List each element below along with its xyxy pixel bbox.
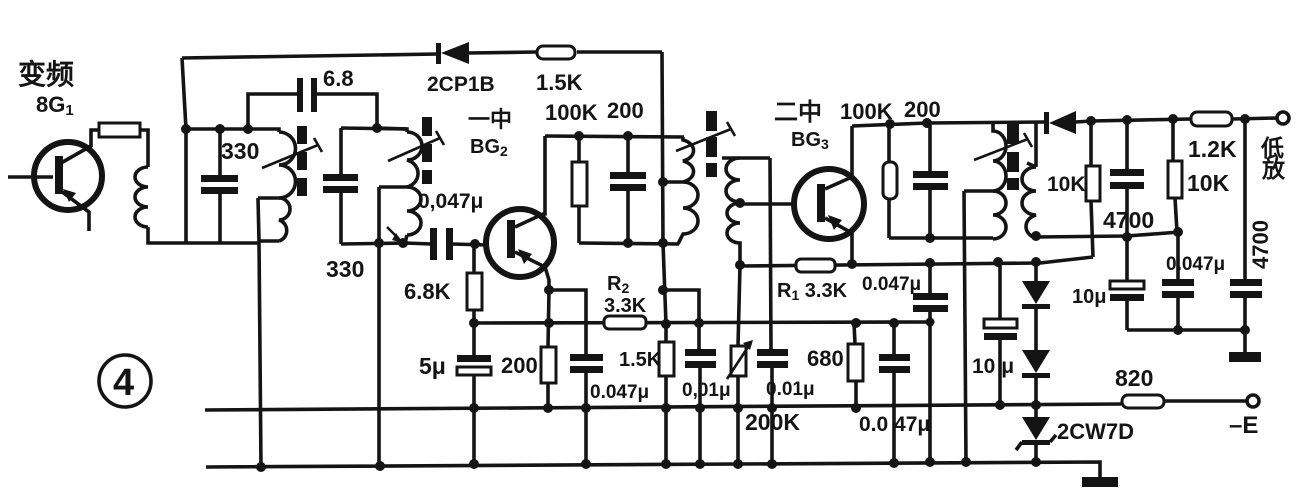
svg-text:3.3K: 3.3K	[604, 295, 647, 317]
inductor L1 (BG1 load coil)	[135, 167, 148, 227]
figure number 4	[99, 355, 151, 407]
arrow small (into node)	[387, 227, 403, 243]
svg-text:–E: –E	[1229, 412, 1258, 439]
transistor BG2	[486, 136, 554, 290]
svg-text:6.8K: 6.8K	[404, 279, 451, 304]
capacitor 10u (first)	[984, 262, 1017, 405]
svg-text:100K: 100K	[545, 100, 598, 125]
ground (output filter)	[1229, 330, 1261, 362]
resistor 1.2K	[1191, 112, 1232, 126]
svg-text:1.2K: 1.2K	[1188, 136, 1237, 162]
svg-text:10K: 10K	[1047, 173, 1086, 196]
arrow T2 tuning	[676, 122, 735, 151]
resistor 1.5K (emitter)	[659, 342, 674, 376]
inductor T2 secondary	[722, 158, 770, 265]
wire BG2 emitter node	[544, 285, 554, 295]
capacitor 0.01u (second)	[757, 349, 788, 464]
wire	[140, 130, 148, 167]
resistor 1.5K (top)	[537, 46, 575, 59]
svg-text:0.047μ: 0.047μ	[862, 274, 921, 295]
wire (left vertical from top rail)	[182, 58, 186, 243]
wire	[1164, 399, 1246, 403]
capacitor 0.01u (first)	[663, 290, 716, 464]
diode D1	[1022, 262, 1050, 350]
capacitor 0.047u coupling to BG2	[405, 228, 488, 260]
svg-text:0.047μ: 0.047μ	[590, 382, 649, 403]
arrow T1 tuning	[262, 138, 322, 168]
capacitor 330 (second tank)	[323, 128, 358, 244]
svg-text:330: 330	[221, 138, 259, 164]
diode 2CW7D (zener)	[1016, 417, 1056, 463]
resistor 10K (left)	[1086, 121, 1100, 257]
diode 2CP1B	[436, 42, 536, 64]
capacitor 200 (second)	[913, 125, 948, 238]
resistor (BG1 collector, unlabeled)	[99, 123, 140, 137]
svg-text:放: 放	[1261, 156, 1286, 182]
wire bottom right	[1127, 328, 1245, 332]
node tank2 top	[372, 123, 382, 133]
wire	[1232, 118, 1277, 119]
core T1	[297, 126, 307, 196]
wire (long vertical B+ line)	[662, 52, 666, 464]
wire BG2 collector rail	[545, 136, 684, 137]
capacitor 5u	[457, 323, 491, 464]
transistor BG1	[8, 130, 102, 231]
wire (T1 return, down to rails)	[258, 198, 261, 467]
svg-text:100K: 100K	[840, 99, 893, 124]
transistor BG3	[794, 126, 864, 264]
svg-text:820: 820	[1115, 365, 1153, 391]
wire	[889, 236, 993, 240]
wire	[186, 241, 259, 245]
wire	[577, 50, 662, 54]
svg-text:10 μ: 10 μ	[972, 355, 1014, 378]
capacitor 0.047u (BG2 emitter)	[549, 290, 603, 464]
svg-text:6.8: 6.8	[323, 66, 354, 91]
wire (T2 secondary top to 0.01u column)	[770, 158, 771, 350]
capacitor 4700 (left)	[1110, 120, 1144, 237]
wire AGC rail (emitter row)	[740, 257, 1093, 266]
svg-text:0.0 47μ: 0.0 47μ	[859, 413, 930, 436]
svg-text:330: 330	[326, 256, 364, 282]
capacitor 6.8	[248, 78, 377, 129]
terminal 低放	[1277, 112, 1289, 124]
svg-text:0.01μ: 0.01μ	[766, 379, 815, 400]
wire BG3 collector rail	[852, 122, 1046, 126]
svg-text:0,047μ: 0,047μ	[418, 190, 483, 213]
node tank2 bottom	[374, 238, 384, 248]
wire	[341, 243, 407, 244]
wire	[148, 227, 186, 243]
svg-text:10μ: 10μ	[1072, 286, 1106, 308]
resistor 820	[1122, 395, 1164, 408]
wire	[341, 128, 406, 129]
resistor 680	[848, 323, 863, 407]
inductor tank2	[377, 128, 422, 243]
svg-text:4700: 4700	[1248, 220, 1273, 269]
svg-text:R1 3.3K: R1 3.3K	[777, 280, 848, 303]
core T3	[1007, 121, 1019, 190]
svg-text:4: 4	[113, 362, 134, 404]
wire mid rail right	[1036, 232, 1180, 237]
svg-text:10K: 10K	[1187, 170, 1230, 196]
svg-text:680: 680	[807, 346, 844, 371]
wire bias rail	[474, 322, 930, 323]
capacitor 0.047u (output)	[1162, 232, 1194, 330]
resistor R2 3.3K	[604, 316, 646, 329]
inductor T3 secondary	[1022, 123, 1036, 238]
svg-text:5μ: 5μ	[419, 353, 446, 379]
core T2	[706, 111, 717, 177]
svg-text:200: 200	[904, 97, 941, 122]
diode D2	[1022, 350, 1050, 417]
resistor 10K (right)	[1168, 119, 1182, 232]
svg-text:1.5K: 1.5K	[536, 70, 583, 95]
resistor 6.8K	[467, 244, 482, 323]
ground (main)	[1082, 477, 1118, 487]
node BG2 base	[470, 239, 480, 249]
svg-text:一中: 一中	[468, 107, 512, 132]
capacitor 200 (first)	[610, 136, 646, 243]
wire (tank2 return, down to rails)	[377, 187, 381, 466]
wire top rail	[182, 54, 438, 58]
inductor T2 primary	[663, 137, 698, 244]
svg-text:二中: 二中	[774, 99, 822, 126]
potentiometer 200K	[727, 265, 753, 464]
inductor T1 primary	[248, 129, 296, 241]
resistor 200 (emitter)	[541, 290, 556, 408]
capacitor 10u (second)	[1110, 236, 1144, 330]
inductor T3 primary	[964, 123, 1006, 239]
resistor 100K (first)	[572, 136, 587, 243]
svg-text:200: 200	[501, 353, 538, 378]
wire (T3 return down to rails)	[964, 191, 966, 462]
wire BG3 base	[740, 202, 795, 206]
wire ground rail upper	[205, 404, 1121, 410]
terminal -E	[1247, 395, 1259, 407]
wire ground rail lower	[206, 462, 1100, 477]
core tank2	[422, 117, 432, 184]
capacitor 4700 (right)	[1230, 119, 1262, 330]
resistor R1 3.3K	[796, 259, 835, 272]
svg-text:0.047μ: 0.047μ	[1166, 254, 1225, 275]
diode detector	[1044, 111, 1091, 134]
svg-text:0,01μ: 0,01μ	[682, 380, 731, 401]
svg-text:4700: 4700	[1103, 207, 1154, 233]
svg-text:2CW7D: 2CW7D	[1057, 419, 1134, 444]
svg-text:1.5K: 1.5K	[619, 349, 662, 371]
wire	[579, 243, 679, 244]
node row T1	[181, 124, 191, 134]
svg-text:200: 200	[607, 98, 644, 123]
capacitor 330 (first tank)	[201, 129, 238, 244]
capacitor 0.047u (lower)	[879, 323, 910, 463]
wire	[186, 127, 248, 131]
capacitor 0.047u (BG3)	[913, 263, 948, 462]
wire output rail	[1091, 119, 1191, 121]
arrow T3 tuning	[974, 133, 1032, 160]
arrow tank2 tuning	[388, 131, 444, 161]
resistor 100K (second)	[883, 126, 897, 238]
svg-text:变频: 变频	[18, 58, 74, 90]
svg-text:2CP1B: 2CP1B	[427, 73, 495, 96]
